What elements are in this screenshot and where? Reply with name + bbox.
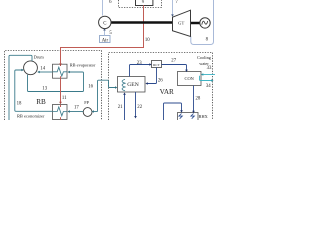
svg-text:10: 10 <box>145 38 150 43</box>
svg-text:VAR: VAR <box>160 88 174 96</box>
svg-text:8: 8 <box>206 37 209 42</box>
svg-text:RB economizer: RB economizer <box>17 114 45 119</box>
svg-text:Air: Air <box>102 38 109 43</box>
svg-text:14: 14 <box>40 66 45 71</box>
svg-text:27: 27 <box>171 59 176 64</box>
svg-text:34: 34 <box>206 84 211 89</box>
svg-text:17: 17 <box>74 105 79 110</box>
svg-text:16: 16 <box>88 84 93 89</box>
svg-text:CON: CON <box>185 76 195 81</box>
svg-text:22: 22 <box>137 105 142 110</box>
svg-text:21: 21 <box>118 105 123 110</box>
svg-text:26: 26 <box>158 78 163 83</box>
svg-text:RB evaporator: RB evaporator <box>70 62 96 67</box>
svg-text:Drum: Drum <box>34 54 45 59</box>
svg-text:Cooling: Cooling <box>197 55 212 60</box>
svg-text:11: 11 <box>62 96 67 101</box>
svg-text:GT: GT <box>178 21 184 26</box>
svg-text:33: 33 <box>207 66 212 71</box>
svg-text:6: 6 <box>109 0 112 5</box>
svg-text:28: 28 <box>196 97 201 102</box>
svg-text:5: 5 <box>109 31 112 36</box>
svg-text:RCT: RCT <box>153 63 161 67</box>
svg-text:23: 23 <box>137 61 142 66</box>
svg-text:C: C <box>103 21 106 26</box>
svg-text:7: 7 <box>175 0 178 5</box>
svg-text:RB: RB <box>36 98 46 106</box>
svg-text:RHX: RHX <box>199 114 209 119</box>
svg-text:water: water <box>199 61 209 66</box>
svg-text:GEN: GEN <box>127 82 139 88</box>
svg-text:13: 13 <box>42 86 47 91</box>
svg-text:18: 18 <box>17 101 22 106</box>
svg-text:FP: FP <box>84 100 89 105</box>
